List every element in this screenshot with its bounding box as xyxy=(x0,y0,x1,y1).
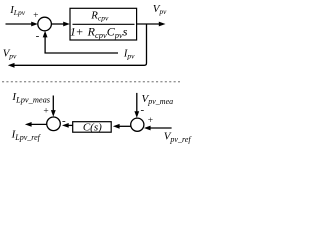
svg-text:Vpv_mea: Vpv_mea xyxy=(142,93,174,106)
wire S3 output to C(s) xyxy=(113,124,131,129)
wire Vpv return line to left xyxy=(8,63,145,68)
node Vpv mid-left label xyxy=(3,48,17,61)
wire input I_Lpv xyxy=(6,22,38,27)
svg-text:1: 1 xyxy=(70,25,76,39)
node I_Lpv label xyxy=(9,4,26,17)
svg-text:Vpv: Vpv xyxy=(153,3,167,16)
block C(s) controller xyxy=(73,122,112,134)
node Ipv label xyxy=(123,48,135,60)
node V_pv_ref label xyxy=(164,131,193,144)
node I_Lpv_ref label xyxy=(11,129,42,142)
wire I_Lpv_meas down into S2 xyxy=(51,96,56,117)
dashed separator line xyxy=(2,81,180,83)
wire S2 output to I_Lpv_ref xyxy=(25,122,47,127)
svg-text:+: + xyxy=(43,106,48,116)
svg-text:Ipv: Ipv xyxy=(123,48,135,60)
node V_pv_mea label xyxy=(142,93,174,106)
minus sign at summing junction S2 xyxy=(62,115,66,127)
svg-text:ILpv_ref: ILpv_ref xyxy=(11,129,42,142)
svg-text:-: - xyxy=(140,104,144,116)
svg-text:+: + xyxy=(33,11,38,21)
summing junction S1 xyxy=(38,17,52,31)
svg-text:C(s): C(s) xyxy=(83,122,102,134)
wire Vpv branch down xyxy=(144,24,146,65)
svg-text:+: + xyxy=(148,116,153,126)
svg-text:-: - xyxy=(36,30,40,42)
summing junction S3 xyxy=(131,118,144,131)
wire C(s) output to S2 xyxy=(62,123,73,128)
wire Ipv feedback horizontal xyxy=(45,51,118,54)
svg-text:Vpv: Vpv xyxy=(3,48,17,61)
svg-text:Vpv_ref: Vpv_ref xyxy=(164,131,193,144)
wire V_pv_meas down into S3 xyxy=(134,93,139,118)
minus sign at summing junction S1 xyxy=(36,30,40,42)
svg-text:ILpv: ILpv xyxy=(9,4,26,17)
plus sign at summing junction S3 xyxy=(148,116,153,126)
minus sign at summing junction S3 xyxy=(140,104,144,116)
wire V_pv_ref into S3 xyxy=(144,126,172,131)
plus sign at summing junction S2 xyxy=(43,106,48,116)
wire Ipv feedback vertical into S1 xyxy=(43,31,48,53)
wire S1 to block G1 xyxy=(51,22,70,27)
summing junction S2 xyxy=(47,117,61,131)
svg-text:ILpv_meas: ILpv_meas xyxy=(11,91,50,104)
wire G1 output to Vpv xyxy=(137,22,166,27)
block G1 transfer function Rcpv/(1+RcpvCpvs) xyxy=(70,8,137,40)
node I_Lpv_meas label xyxy=(11,91,50,104)
node Vpv output label xyxy=(153,3,167,16)
svg-text:+: + xyxy=(76,25,83,39)
plus sign at summing junction S1 xyxy=(33,11,38,21)
